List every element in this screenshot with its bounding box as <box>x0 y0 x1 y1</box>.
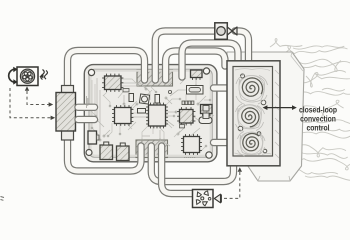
svg-text:control: control <box>307 123 330 133</box>
